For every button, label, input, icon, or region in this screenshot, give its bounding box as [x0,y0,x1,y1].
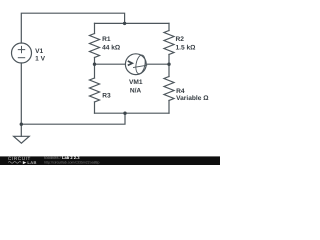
svg-text:R2: R2 [176,36,185,43]
svg-text:44 kΩ: 44 kΩ [102,45,121,52]
svg-text:LAB: LAB [27,160,36,165]
svg-text:N/A: N/A [130,87,142,94]
svg-text:V1: V1 [35,48,43,55]
svg-text:Variable Ω: Variable Ω [176,95,209,102]
svg-text:R1: R1 [102,36,111,43]
svg-text:1.5 kΩ: 1.5 kΩ [176,44,197,51]
svg-text:http://circuitlab.com/c335m22o: http://circuitlab.com/c335m22oa88p [44,160,99,164]
svg-text:VM1: VM1 [129,79,143,86]
svg-text:toolbots / Lab 2 2.3: toolbots / Lab 2 2.3 [44,155,80,160]
svg-text:1 V: 1 V [35,56,45,63]
svg-text:R3: R3 [102,93,111,100]
